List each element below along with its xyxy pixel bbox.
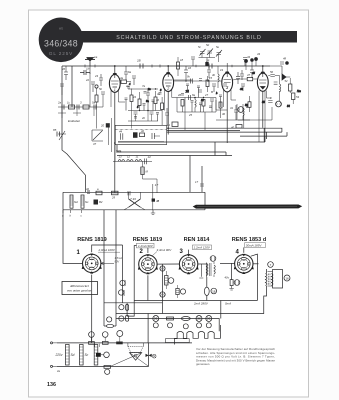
comb winding xyxy=(174,325,220,345)
output transformer xyxy=(266,269,274,290)
wire socket2 top stub xyxy=(147,248,149,253)
svg-text:24: 24 xyxy=(132,95,137,99)
wire x122 column xyxy=(122,245,124,303)
svg-text:8a: 8a xyxy=(192,93,196,97)
wire speaker bottom xyxy=(116,290,267,314)
mains prongs xyxy=(53,343,58,367)
wire socket1 pointer xyxy=(101,262,114,264)
bus line 2 xyxy=(167,132,287,136)
svg-text:2a: 2a xyxy=(57,101,62,105)
texture specks cluster B xyxy=(125,87,162,122)
wire box H1 xyxy=(104,302,163,304)
wire socket3 top stub xyxy=(188,250,190,255)
capacitor 28 on top bus xyxy=(205,59,212,69)
rectifier funnel xyxy=(110,343,148,367)
heater line xyxy=(116,319,219,332)
wire tube3 right out xyxy=(233,79,240,80)
svg-text:27: 27 xyxy=(204,93,209,97)
wire coil box bottom xyxy=(63,209,205,211)
cluster above tube4 xyxy=(240,52,261,80)
tube V2 xyxy=(163,74,174,92)
wire socket1 down xyxy=(91,275,93,343)
transformer choke at socket3 xyxy=(207,262,216,277)
wire tube1 top cap xyxy=(114,66,116,75)
wire rect drop xyxy=(147,314,149,344)
bus line 3 xyxy=(118,136,265,142)
svg-text:90V: 90V xyxy=(115,259,120,263)
svg-text:2B: 2B xyxy=(136,59,141,63)
svg-text:50: 50 xyxy=(270,70,274,74)
detector cluster right xyxy=(236,57,300,143)
wire coil box left xyxy=(62,192,64,210)
svg-text:220v: 220v xyxy=(55,353,63,357)
shield box dashdot xyxy=(115,129,166,131)
svg-text:Sc: Sc xyxy=(85,353,89,357)
svg-text:2,0mA 100V: 2,0mA 100V xyxy=(98,248,116,252)
switch 37 xyxy=(92,130,103,146)
winding Sc xyxy=(81,195,89,208)
svg-text:6a: 6a xyxy=(128,70,132,74)
svg-text:26: 26 xyxy=(61,67,66,71)
wire row xyxy=(113,160,152,162)
component 17b xyxy=(195,180,204,186)
wire fuse column xyxy=(206,277,208,301)
svg-text:0mA: 0mA xyxy=(225,302,231,306)
bus line 1 xyxy=(167,128,282,132)
shield box inner xyxy=(118,141,164,143)
shield box outer xyxy=(115,125,166,144)
cluster B between tube1-2 xyxy=(125,84,162,129)
svg-text:11: 11 xyxy=(136,155,139,159)
cluster under tube3 xyxy=(216,100,250,120)
wire box H2 xyxy=(127,301,134,317)
bus line 1b xyxy=(167,129,240,131)
svg-text:REN 1814: REN 1814 xyxy=(184,237,211,243)
coil 13 xyxy=(118,155,125,162)
socket 2 voltage label b xyxy=(153,248,173,256)
svg-text:44: 44 xyxy=(247,55,251,59)
resistor NSF column xyxy=(165,271,168,289)
cluster left mid xyxy=(95,85,105,129)
svg-text:23: 23 xyxy=(94,74,99,78)
wire 54a drop xyxy=(114,143,116,161)
component 21 circled xyxy=(119,304,129,310)
svg-text:1a: 1a xyxy=(94,55,98,59)
switch crossing 33 xyxy=(124,192,145,210)
svg-text:7,33: 7,33 xyxy=(130,197,136,201)
capacitor 1b xyxy=(80,67,90,108)
texture specks labels xyxy=(129,72,301,109)
rail component 23b xyxy=(102,332,108,345)
component 18 circled xyxy=(211,288,217,294)
svg-text:2mA 280V: 2mA 280V xyxy=(193,302,209,306)
svg-text:Erdkabel: Erdkabel xyxy=(68,119,80,123)
svg-text:12: 12 xyxy=(127,155,131,159)
svg-text:17: 17 xyxy=(195,180,199,184)
tube socket 4 xyxy=(234,254,254,274)
trimmer bank above tube3 xyxy=(198,43,222,66)
wire riser 190 xyxy=(189,156,191,193)
svg-text:19: 19 xyxy=(220,68,224,72)
svg-text:37: 37 xyxy=(93,142,97,146)
svg-text:Sc: Sc xyxy=(85,200,89,204)
svg-text:5e: 5e xyxy=(216,45,220,49)
wire tube2 top cap xyxy=(167,66,169,74)
svg-text:Sd: Sd xyxy=(74,200,78,204)
winding Sd xyxy=(70,195,78,208)
tube V4 xyxy=(257,73,268,91)
svg-text:47: 47 xyxy=(247,73,251,77)
wire socket4 right pin xyxy=(253,263,259,265)
component 8b circled xyxy=(101,352,109,358)
antenna xyxy=(85,55,98,74)
component 14c circled xyxy=(160,266,165,271)
oval fuse box xyxy=(106,324,113,327)
junction dots xyxy=(114,65,264,144)
tube2 lower chain xyxy=(156,97,169,125)
wire right wrap xyxy=(264,128,266,142)
tube2 pin fan xyxy=(165,90,178,111)
svg-text:1: 1 xyxy=(114,88,116,92)
wire socket2 down xyxy=(147,275,149,300)
svg-text:1,2mA 120V: 1,2mA 120V xyxy=(194,246,211,250)
svg-text:54a: 54a xyxy=(116,150,122,154)
coil 33 xyxy=(181,317,190,329)
winding secondary 1 xyxy=(80,345,84,366)
winding stubs xyxy=(95,344,100,347)
wire socket4 right loop xyxy=(251,254,258,300)
svg-text:Röhrensockel: Röhrensockel xyxy=(69,284,88,288)
texture specks osc xyxy=(181,84,222,112)
capacitor 14 xyxy=(144,155,151,164)
tick labels xyxy=(62,214,83,218)
svg-text:SCHALTBILD UND STROM-SPANNUNGS: SCHALTBILD UND STROM-SPANNUNGS BILD xyxy=(116,35,262,41)
coupling cluster tube1-2 upper xyxy=(120,66,136,85)
wire x1625 column xyxy=(162,264,164,313)
wire socket3 right xyxy=(198,263,207,265)
svg-text:1b: 1b xyxy=(86,67,90,71)
svg-text:18: 18 xyxy=(212,289,216,293)
tube4 pin fan xyxy=(259,91,271,106)
winding secondary 2 xyxy=(94,345,98,366)
winding 220v primary xyxy=(66,345,70,366)
svg-text:13: 13 xyxy=(119,155,123,159)
svg-text:42: 42 xyxy=(141,129,145,133)
tube V1 xyxy=(109,75,120,93)
switch 85 xyxy=(53,128,66,140)
speaker loop xyxy=(268,270,283,289)
component 29 xyxy=(111,191,118,199)
svg-text:30: 30 xyxy=(222,112,226,116)
capacitor on top line xyxy=(128,191,130,195)
wire tube4 drop xyxy=(262,91,264,128)
wire socket4 left leg xyxy=(220,262,235,264)
resistor 40V xyxy=(225,276,234,291)
wire socket1 left feed xyxy=(63,210,83,264)
resistor 13b with circle xyxy=(176,285,186,298)
socket 2 voltage label xyxy=(137,243,155,248)
wire tube4 top cap xyxy=(262,66,264,73)
socket 4 voltage label xyxy=(245,243,266,248)
resistor 39 xyxy=(167,317,174,328)
wire bottom loop line xyxy=(134,300,257,302)
cluster left of tube1 xyxy=(60,66,103,95)
svg-text:53: 53 xyxy=(296,95,300,99)
bottom power supply section xyxy=(51,316,221,375)
svg-text:44: 44 xyxy=(119,130,123,134)
svg-text:von unten gesehen: von unten gesehen xyxy=(67,289,92,293)
left cluster input filter xyxy=(57,101,103,119)
lamp 36 xyxy=(206,316,212,328)
component 60B xyxy=(96,187,102,195)
svg-text:1,2mA 90V: 1,2mA 90V xyxy=(138,244,154,248)
svg-text:31: 31 xyxy=(230,106,234,110)
component 21 xyxy=(166,122,178,127)
component 12 circled xyxy=(210,256,216,262)
component 14b black xyxy=(152,199,160,203)
svg-text:4b: 4b xyxy=(212,73,216,77)
fine print text block xyxy=(196,347,275,366)
svg-text:ws: ws xyxy=(59,27,63,31)
svg-text:20: 20 xyxy=(100,124,105,128)
electrolytic cap black xyxy=(96,353,101,357)
svg-text:Hm: Hm xyxy=(297,90,301,93)
component 42 on top line xyxy=(86,187,90,193)
capacitor 2B on top bus xyxy=(136,59,143,69)
component 42 black in box xyxy=(133,129,145,138)
svg-text:5b: 5b xyxy=(99,87,103,91)
svg-text:Sd: Sd xyxy=(71,353,75,357)
component 7 circled xyxy=(268,262,274,268)
wire verticals left of shield xyxy=(109,118,112,152)
svg-text:25: 25 xyxy=(188,113,193,117)
component 20 black xyxy=(100,123,110,127)
svg-text:52: 52 xyxy=(285,79,289,83)
component 44 caps in box xyxy=(119,130,123,140)
transformer top rail xyxy=(57,342,192,344)
rectifier vertical with cap xyxy=(146,343,157,367)
resistor 23 circled xyxy=(120,280,126,286)
svg-text:2b: 2b xyxy=(141,116,146,120)
component 17c circled xyxy=(107,317,112,322)
svg-text:16: 16 xyxy=(285,276,289,280)
svg-text:RENS 1819: RENS 1819 xyxy=(133,237,163,243)
coil M column xyxy=(141,161,157,193)
bus line 4 xyxy=(117,142,232,156)
wire coil box top xyxy=(63,191,205,193)
tube socket 3 xyxy=(179,254,199,274)
wire tube3 drop xyxy=(226,92,228,143)
tube socket 2 xyxy=(138,254,158,274)
box bottom xyxy=(104,325,116,327)
component 17 xyxy=(153,183,159,210)
wire left drop xyxy=(62,66,86,192)
svg-text:42: 42 xyxy=(86,187,90,191)
osc upper cluster xyxy=(174,57,195,80)
title banner xyxy=(81,31,297,43)
page sheet xyxy=(29,10,309,397)
component 22 circled xyxy=(119,315,129,321)
svg-text:136: 136 xyxy=(47,382,56,388)
socket 1 voltage label xyxy=(98,248,121,252)
resistor bottom rail xyxy=(104,366,111,375)
component B2 black xyxy=(94,200,103,205)
svg-text:RENS 1853 d: RENS 1853 d xyxy=(232,237,267,243)
svg-text:30mA 185V: 30mA 185V xyxy=(246,243,263,247)
svg-text:2: 2 xyxy=(166,87,169,91)
fuse oval xyxy=(204,287,209,295)
svg-text:48: 48 xyxy=(283,57,287,61)
oscillator cluster under tube2 xyxy=(177,90,216,130)
svg-text:18: 18 xyxy=(180,58,184,62)
wire heater drop xyxy=(220,301,222,319)
component 13 circled xyxy=(160,292,165,297)
svg-text:3,4mA 90V: 3,4mA 90V xyxy=(157,248,173,252)
wire socket3 stub xyxy=(199,264,203,278)
socket 1 small label xyxy=(115,256,123,263)
tube socket 1 xyxy=(82,254,102,274)
svg-text:GL 225V: GL 225V xyxy=(49,51,73,56)
wire socket2 right xyxy=(157,263,180,265)
rail component 17 xyxy=(89,332,95,345)
wire riser x104 xyxy=(103,210,105,326)
wire tube2 drop xyxy=(167,91,169,134)
svg-text:4a: 4a xyxy=(120,76,124,80)
svg-text:17: 17 xyxy=(155,183,159,187)
svg-text:29: 29 xyxy=(111,196,116,200)
svg-text:28: 28 xyxy=(205,59,210,63)
wire coil box right xyxy=(204,192,206,210)
svg-text:16: 16 xyxy=(188,66,192,70)
svg-text:43: 43 xyxy=(257,52,261,56)
lamp 31 xyxy=(153,316,159,328)
component in box right xyxy=(152,133,160,139)
svg-text:14: 14 xyxy=(148,155,152,159)
badge circle 346/348 xyxy=(39,18,84,63)
wire riser 202 xyxy=(201,166,203,192)
wire top bus xyxy=(62,65,270,67)
svg-text:B2: B2 xyxy=(99,200,103,204)
tube3 pin fan xyxy=(224,90,237,107)
svg-text:5d: 5d xyxy=(206,43,210,47)
svg-text:RENS 1819: RENS 1819 xyxy=(77,237,107,243)
wire tube1 drop xyxy=(114,92,116,193)
annotation box Roehrensockel xyxy=(62,282,98,295)
coil box assembly xyxy=(62,156,205,218)
svg-text:85: 85 xyxy=(53,128,57,132)
wire tube2-tube3 coupling xyxy=(174,76,222,84)
ground symbol xyxy=(151,210,155,215)
osc mid cluster xyxy=(206,76,216,92)
component 40 xyxy=(231,125,242,130)
rail component 38 xyxy=(116,331,123,345)
mains switch box on rail xyxy=(165,339,189,343)
coil 12 xyxy=(127,155,134,162)
tube1 pin fan xyxy=(111,91,125,108)
component 16 circled xyxy=(284,275,290,281)
svg-text:40: 40 xyxy=(231,126,235,130)
bus ticks xyxy=(85,65,232,68)
thick bar (dial) xyxy=(193,205,303,209)
svg-text:gemessen.: gemessen. xyxy=(196,362,210,366)
svg-text:26: 26 xyxy=(177,93,182,97)
tube V3 xyxy=(222,73,233,92)
band filter row 54a xyxy=(113,143,158,210)
svg-text:346/348: 346/348 xyxy=(44,39,78,49)
component 11b circled xyxy=(168,278,174,284)
wire riser x116 xyxy=(115,210,117,326)
ticks below bottom xyxy=(63,210,82,213)
svg-text:10: 10 xyxy=(156,98,160,102)
svg-text:7a: 7a xyxy=(142,84,146,88)
component 8 circled xyxy=(234,280,240,286)
wire socket4 left loop xyxy=(231,263,233,279)
svg-text:40v: 40v xyxy=(225,276,230,280)
wire socket4 top stub xyxy=(243,247,245,252)
lamp 32 xyxy=(196,316,202,328)
wire socket1 top loop xyxy=(92,245,123,252)
wire socket2 left loop xyxy=(134,246,136,301)
coil 11 xyxy=(135,155,142,162)
wire antenna drop xyxy=(71,66,73,107)
resistor 11 circled xyxy=(119,290,125,296)
mid cluster between tube2-3 xyxy=(207,66,227,88)
socket 3 voltage label xyxy=(193,245,212,250)
transformer bottom rail xyxy=(57,365,149,367)
svg-text:22: 22 xyxy=(85,78,90,82)
